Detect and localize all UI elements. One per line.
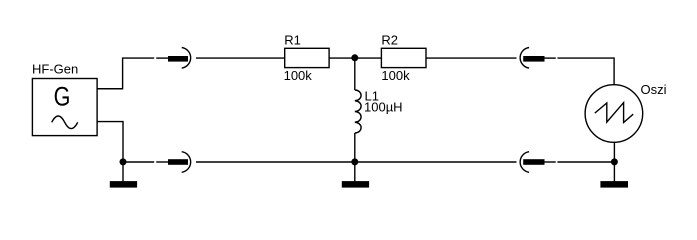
wire stub before connector J2 — [156, 161, 168, 163]
ground stem left — [122, 162, 124, 182]
ground stem right — [613, 162, 615, 182]
wire: connector J1 to resistor R1 — [196, 57, 285, 59]
wire: resistor R1 to resistor R2 — [329, 57, 381, 59]
resistor R2 body — [381, 48, 426, 67]
svg-text:R1: R1 — [284, 33, 301, 48]
resistor R1 body — [285, 48, 329, 67]
ground bar middle — [342, 181, 369, 188]
wire: generator top terminal up to top rail — [97, 58, 154, 89]
inductor L1 coil — [355, 90, 361, 133]
ground stem middle — [354, 162, 356, 182]
wire: connector J2 to node under L1 — [196, 161, 355, 163]
connector J3 pin bar — [523, 56, 544, 62]
oscilloscope body circle — [585, 85, 643, 143]
generator G1 box — [32, 79, 97, 136]
wire: oscilloscope bottom to bottom rail — [613, 142, 615, 162]
wire: inductor L1 bottom to bottom rail — [354, 133, 356, 162]
connector J2 pin bar — [168, 159, 188, 165]
wire: connector J4 toward right node — [545, 161, 556, 163]
node junction bottom left — [120, 158, 127, 165]
wire: bottom rail from node to connector J2 — [123, 161, 154, 163]
svg-text:HF-Gen: HF-Gen — [32, 62, 78, 77]
svg-text:Oszi: Oszi — [641, 82, 667, 97]
connector J1 shell arc — [182, 48, 191, 69]
connector J2 shell arc — [182, 152, 191, 173]
svg-text:R2: R2 — [381, 33, 398, 48]
wire: top rail corner down to oscilloscope top — [557, 58, 614, 85]
node junction under oscilloscope — [611, 158, 618, 165]
oscilloscope sawtooth symbol — [595, 103, 633, 123]
connector J1 pin bar — [168, 56, 188, 62]
generator sine wave symbol — [52, 116, 78, 129]
connector J4 shell arc — [520, 152, 529, 173]
node junction at bottom of L1 — [351, 158, 358, 165]
wire: connector J3 toward oscilloscope — [545, 57, 556, 59]
svg-text:100µH: 100µH — [364, 100, 403, 115]
ground bar left — [110, 181, 137, 188]
wire: resistor R2 to connector J3 — [426, 57, 517, 59]
wire: node to inductor L1 top — [354, 58, 356, 90]
wire: generator bottom terminal down to bottom rail — [97, 122, 123, 162]
connector J4 pin bar — [523, 159, 544, 165]
svg-text:G: G — [54, 82, 71, 112]
wire: bottom rail node to connector J4 — [355, 161, 517, 163]
svg-text:100k: 100k — [381, 68, 410, 83]
wire: bottom rail into right node — [557, 161, 614, 163]
ground bar right — [600, 181, 628, 188]
svg-text:100k: 100k — [284, 68, 313, 83]
connector J3 shell arc — [520, 48, 529, 69]
wire stub before connector J1 — [156, 57, 168, 59]
node junction at top of L1 — [351, 54, 358, 61]
